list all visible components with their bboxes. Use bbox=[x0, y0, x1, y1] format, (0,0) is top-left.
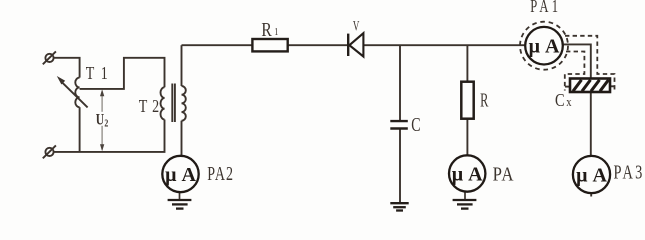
svg-text:PA: PA bbox=[493, 163, 515, 185]
svg-text:R: R bbox=[261, 18, 272, 40]
svg-text:μ A: μ A bbox=[165, 164, 196, 186]
svg-text:1: 1 bbox=[274, 26, 278, 38]
svg-text:μ A: μ A bbox=[576, 164, 607, 186]
svg-text:μ A: μ A bbox=[452, 163, 483, 185]
svg-text:PA3: PA3 bbox=[614, 160, 645, 183]
svg-text:PA2: PA2 bbox=[207, 163, 234, 185]
svg-text:μ A: μ A bbox=[529, 36, 560, 58]
svg-text:2: 2 bbox=[104, 118, 108, 129]
svg-text:T 2: T 2 bbox=[139, 98, 160, 117]
svg-text:U: U bbox=[96, 111, 104, 128]
svg-text:V: V bbox=[353, 17, 360, 34]
svg-text:T 1: T 1 bbox=[86, 64, 110, 83]
svg-text:PA1: PA1 bbox=[530, 0, 561, 17]
svg-text:x: x bbox=[566, 95, 571, 109]
svg-text:C: C bbox=[411, 112, 420, 135]
svg-text:R: R bbox=[480, 89, 489, 112]
svg-text:C: C bbox=[555, 89, 565, 110]
